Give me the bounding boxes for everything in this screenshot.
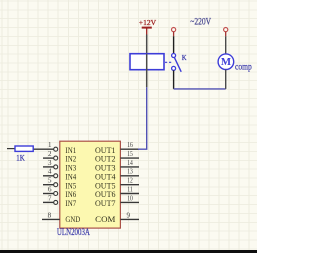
svg-text:COM: COM — [95, 215, 115, 224]
svg-text:IN1: IN1 — [65, 146, 76, 155]
svg-text:OUT1: OUT1 — [95, 146, 116, 155]
svg-text:4: 4 — [48, 168, 52, 176]
svg-text:IN4: IN4 — [65, 172, 76, 181]
svg-text:2: 2 — [48, 150, 52, 158]
terminal circle (motor supply) — [224, 28, 228, 32]
motor M body — [218, 54, 234, 70]
relay-switch linkage dashed — [165, 61, 172, 63]
svg-text:8: 8 — [48, 211, 52, 219]
svg-text:IN2: IN2 — [65, 155, 76, 164]
svg-text:7: 7 — [48, 194, 52, 202]
pin 13 (OUT4) of U1 — [120, 168, 139, 176]
svg-text:10: 10 — [127, 194, 133, 202]
terminal stem red — [173, 32, 175, 37]
svg-text:5: 5 — [48, 177, 52, 185]
terminal circle (switch supply) — [172, 28, 176, 32]
svg-text:+12V: +12V — [139, 18, 157, 27]
window edge black bar — [0, 250, 257, 253]
relay coil K body — [130, 54, 164, 70]
switch K top contact — [172, 54, 176, 58]
pin 15 (OUT2) of U1 — [120, 150, 139, 158]
relay coil pin through body — [146, 54, 148, 88]
svg-text:IN6: IN6 — [65, 190, 76, 199]
pin 4 (IN4) of U1 — [43, 168, 58, 178]
svg-text:14: 14 — [127, 159, 133, 167]
pin 16 (OUT1) of U1 — [120, 141, 139, 149]
wire switch to bottom rail — [173, 70, 175, 89]
svg-text:1: 1 — [48, 141, 52, 149]
svg-text:IN3: IN3 — [65, 164, 76, 173]
wire motor to bottom rail — [225, 70, 227, 89]
svg-text:OUT7: OUT7 — [95, 199, 116, 208]
wire terminal to switch — [173, 36, 175, 53]
svg-text:13: 13 — [127, 168, 133, 176]
svg-text:12: 12 — [127, 177, 133, 185]
svg-text:OUT3: OUT3 — [95, 164, 116, 173]
svg-text:OUT6: OUT6 — [95, 190, 116, 199]
svg-text:9: 9 — [127, 211, 131, 219]
terminal stem red — [225, 32, 227, 37]
svg-text:6: 6 — [48, 185, 52, 193]
pin 6 (IN6) of U1 — [43, 185, 58, 195]
svg-text:M: M — [221, 57, 232, 68]
wire terminal to motor — [225, 36, 227, 54]
wire to resistor left — [7, 148, 15, 150]
pin 12 (OUT5) of U1 — [120, 177, 139, 185]
svg-text:GND: GND — [65, 215, 80, 224]
pin 7 (IN7) of U1 — [43, 194, 58, 204]
pin 11 (OUT6) of U1 — [120, 185, 139, 193]
svg-text:11: 11 — [127, 185, 133, 193]
pin 14 (OUT3) of U1 — [120, 159, 139, 167]
svg-text:comp: comp — [235, 61, 252, 71]
svg-text:OUT4: OUT4 — [95, 172, 116, 181]
pin 5 (IN5) of U1 — [43, 177, 58, 187]
svg-text:OUT5: OUT5 — [95, 181, 116, 190]
svg-text:IN7: IN7 — [65, 199, 76, 208]
wire bottom rail — [174, 88, 226, 90]
resistor R 1K — [15, 146, 33, 151]
svg-text:OUT2: OUT2 — [95, 155, 116, 164]
U1 output pin name labels OUT1-OUT7 — [95, 146, 116, 208]
svg-text:~220V: ~220V — [190, 16, 211, 27]
pin 2 (IN2) of U1 — [43, 150, 58, 160]
svg-text:IN5: IN5 — [65, 181, 76, 190]
pin 1 (IN1) of U1 — [33, 141, 58, 151]
relay coil pin (vertical) — [146, 35, 148, 54]
svg-text:K: K — [182, 53, 187, 62]
pin 3 (IN3) of U1 — [43, 159, 58, 169]
svg-text:ULN2003A: ULN2003A — [57, 228, 90, 238]
svg-text:15: 15 — [127, 150, 133, 158]
pin 9 (COM) of U1 — [120, 211, 139, 219]
svg-text:1K: 1K — [16, 153, 24, 162]
U1 input pin name labels IN1-IN7 — [65, 146, 76, 208]
switch K bottom contact — [172, 66, 176, 70]
pin 10 (OUT7) of U1 — [120, 194, 139, 202]
IC U1 ULN2003A body — [60, 141, 121, 228]
pin 8 (GND) of U1 — [42, 211, 60, 219]
power +12V bar symbol — [142, 27, 152, 29]
svg-text:3: 3 — [48, 159, 52, 167]
wire from relay to pin 16 — [138, 87, 147, 149]
svg-text:16: 16 — [127, 141, 133, 149]
switch K blade — [174, 57, 181, 72]
